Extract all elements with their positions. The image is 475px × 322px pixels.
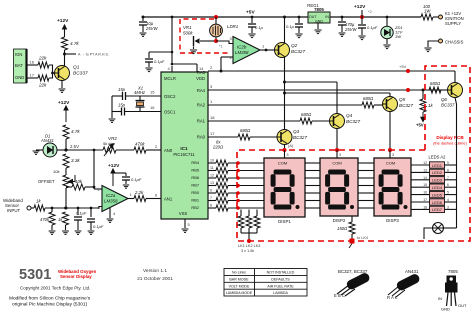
wire DISP3 to LED	[411, 179, 430, 181]
wire R2 to Q1 base	[49, 73, 53, 78]
display DISP1	[264, 158, 305, 217]
svg-text:680Ω: 680Ω	[363, 96, 374, 101]
svg-text:11: 11	[210, 166, 214, 170]
svg-text:17: 17	[210, 131, 215, 136]
wire link 3	[256, 210, 258, 217]
wire stub	[349, 244, 352, 249]
svg-text:500k: 500k	[183, 31, 193, 36]
svg-text:3 x 1.5k: 3 x 1.5k	[241, 249, 254, 253]
resistor R17 1k	[420, 99, 426, 112]
svg-text:14: 14	[199, 66, 204, 71]
ground Q1 emitter	[59, 89, 66, 92]
svg-text:5: 5	[447, 191, 449, 195]
svg-text:BAT: BAT	[15, 63, 23, 68]
svg-text:4: 4	[447, 198, 449, 202]
svg-text:to LK4: to LK4	[357, 236, 368, 240]
svg-text:BC327: BC327	[346, 119, 360, 124]
svg-text:14: 14	[423, 176, 427, 180]
wire RA3 bus	[208, 70, 455, 72]
wire	[125, 173, 127, 176]
svg-text:22k: 22k	[38, 56, 47, 61]
wire LED to common	[445, 179, 457, 181]
display PCB dashed outline	[237, 66, 470, 241]
svg-text:LDR1: LDR1	[227, 24, 239, 29]
wire DISP2-DISP3 bus	[358, 207, 374, 209]
svg-text:0.1µF: 0.1µF	[131, 177, 142, 182]
svg-text:7805: 7805	[448, 269, 458, 274]
wire	[148, 52, 150, 58]
package BC327/BC337	[334, 269, 371, 298]
wire	[341, 25, 343, 32]
wire IC1 RB7	[208, 185, 216, 187]
svg-text:IC1: IC1	[180, 146, 188, 151]
svg-text:12: 12	[423, 161, 427, 165]
node n4	[90, 207, 93, 210]
svg-text:+12V: +12V	[58, 100, 70, 106]
svg-text:+12V: +12V	[108, 163, 120, 169]
node Q1 base	[51, 72, 54, 75]
svg-text:BC337: BC337	[441, 103, 455, 108]
resistor R10 2.2k	[134, 196, 146, 202]
node A	[283, 148, 287, 152]
wire	[251, 27, 253, 33]
ground C4	[145, 68, 152, 72]
node	[236, 161, 240, 165]
wire DISP1-DISP2 bus	[305, 162, 320, 164]
node	[236, 169, 240, 173]
wire	[386, 39, 388, 44]
node	[171, 16, 174, 19]
svg-text:16: 16	[30, 60, 35, 65]
svg-text:0.1µF: 0.1µF	[154, 59, 165, 64]
wire link 2	[248, 210, 250, 217]
LED LED1	[430, 162, 445, 168]
svg-text:17: 17	[423, 198, 427, 202]
wire to DISP1 pin	[228, 185, 264, 187]
wire	[139, 96, 141, 101]
svg-text:680Ω: 680Ω	[240, 128, 251, 133]
svg-text:BC327: BC327	[293, 135, 307, 140]
LED LED3	[430, 177, 445, 183]
svg-text:3.3k: 3.3k	[71, 158, 80, 163]
wire to DISP1 pin	[228, 207, 264, 209]
wire link common	[241, 232, 257, 234]
wire RA0 bus	[208, 136, 238, 138]
svg-text:Q2: Q2	[291, 43, 298, 48]
wire pin14 link	[172, 63, 197, 65]
ground C11	[358, 36, 365, 40]
svg-text:8: 8	[447, 168, 449, 172]
svg-text:2.5V: 2.5V	[70, 144, 79, 149]
wire REF1 to ground	[36, 149, 43, 151]
wire MCLR to +5V rail	[171, 17, 173, 64]
wire DISP2-DISP3 bus	[358, 185, 374, 187]
+12V rail arrow 2	[64, 106, 68, 122]
wire IC1 RB2	[208, 207, 216, 209]
node	[406, 88, 410, 92]
transistor Q2 BC327	[275, 43, 290, 58]
resistor R5 3.3k	[63, 154, 69, 168]
resistor RB array 4 220R	[216, 183, 228, 189]
svg-text:Q6: Q6	[441, 97, 447, 102]
wire	[248, 228, 250, 233]
svg-text:BC327, BC337: BC327, BC337	[338, 269, 368, 274]
svg-text:GND: GND	[441, 307, 450, 312]
svg-text:3: 3	[447, 205, 449, 209]
node LK4	[350, 239, 355, 244]
resistor R7 1k	[34, 205, 45, 211]
wire	[90, 208, 92, 217]
node LDR bottom	[214, 39, 218, 43]
svg-text:GND: GND	[15, 75, 24, 80]
trimpot VR3 body	[63, 175, 69, 188]
wire	[66, 186, 72, 188]
wire DISP2 pin	[351, 216, 353, 222]
wire	[193, 47, 195, 49]
node	[265, 49, 268, 52]
resistor R12 100R 1W	[421, 14, 433, 20]
wire R1 to Q1 base	[49, 65, 55, 73]
resistor R16 680R	[429, 87, 441, 93]
svg-text:RB2: RB2	[191, 205, 199, 210]
svg-text:15p: 15p	[118, 87, 126, 92]
wire Q2 emitter to rail	[284, 17, 286, 44]
svg-text:A → to PT A R.H.S.: A → to PT A R.H.S.	[78, 53, 109, 57]
svg-text:COM: COM	[332, 160, 341, 165]
svg-text:7805: 7805	[314, 7, 324, 12]
node n3	[77, 207, 80, 210]
ground chassis	[424, 48, 431, 52]
wire LED to common	[445, 164, 457, 166]
wire osc gnd leg	[111, 96, 113, 118]
svg-text:0.1µ: 0.1µ	[286, 24, 295, 29]
regulator REG1 7805	[308, 12, 330, 23]
transistor Q1 BC337	[55, 66, 70, 81]
svg-text:R A K: R A K	[387, 295, 398, 300]
wire	[93, 187, 95, 189]
svg-text:OUT: OUT	[309, 15, 317, 19]
wire RA1 bus	[208, 120, 300, 122]
crystal X1 4MHz	[136, 96, 145, 112]
wire	[215, 17, 217, 24]
capacitor C8 0.1uF	[248, 24, 256, 27]
svg-text:GND: GND	[315, 20, 323, 24]
resistor LK3	[254, 216, 260, 228]
svg-text:1k: 1k	[36, 199, 41, 204]
terminal K1	[439, 15, 443, 19]
wire	[90, 222, 92, 230]
wire	[142, 17, 144, 21]
ground IC1 VSS	[182, 229, 189, 232]
resistor RB array 7 220R	[216, 205, 228, 211]
ground C2	[88, 231, 95, 234]
wire	[361, 17, 363, 24]
ground R9	[62, 231, 69, 234]
LED LED6	[430, 199, 445, 205]
svg-text:6: 6	[210, 189, 212, 193]
svg-text:Q1: Q1	[73, 65, 80, 71]
wire DISP1 COM stub	[284, 150, 286, 158]
resistor R8 470k	[49, 212, 55, 225]
resistor R18 150R	[349, 222, 355, 234]
svg-text:Q3: Q3	[293, 129, 300, 134]
wire R6 to opamp	[85, 186, 94, 188]
capacitor C2 0.1uF	[87, 219, 95, 222]
wire CON1 pin17 to R2	[27, 77, 38, 79]
node	[251, 16, 254, 19]
resistor R14 680R	[300, 118, 312, 124]
connector CON1	[14, 49, 27, 83]
wire osc bottom	[112, 111, 121, 113]
+12V rail arrow	[63, 25, 67, 37]
LDR1	[210, 24, 223, 37]
+12V arrow opamp	[111, 169, 115, 186]
svg-text:RA1: RA1	[197, 119, 206, 124]
node	[220, 70, 223, 73]
wire LED to common	[445, 194, 457, 196]
wire RA2 bus	[208, 104, 362, 106]
svg-text:NOT INSTALLED: NOT INSTALLED	[267, 271, 295, 275]
wire LED common vertical	[456, 104, 458, 228]
svg-text:RA0: RA0	[197, 135, 206, 140]
wire VR1 to LDR	[200, 40, 216, 42]
wire	[31, 207, 34, 209]
svg-text:16: 16	[150, 105, 155, 110]
svg-text:25VW: 25VW	[145, 26, 158, 31]
svg-text:RB0: RB0	[191, 190, 199, 195]
svg-text:25VW: 25VW	[344, 27, 357, 32]
node n1	[51, 207, 54, 210]
wire	[51, 208, 53, 212]
wire	[422, 90, 424, 99]
svg-text:150Ω: 150Ω	[337, 226, 348, 231]
svg-text:3: 3	[287, 153, 289, 157]
wire to Q4 base	[312, 120, 330, 122]
wire DISP1-DISP2 bus	[305, 170, 320, 172]
node	[283, 81, 286, 84]
wire	[64, 30, 66, 37]
svg-text:VSS: VSS	[179, 211, 188, 216]
svg-text:PIC16C711: PIC16C711	[173, 152, 195, 157]
node link common	[247, 239, 251, 243]
wire DISP2-DISP3 bus	[358, 170, 374, 172]
wire Q3 collector to DISP1	[284, 145, 286, 159]
display PCB dashed outline (LDR box)	[180, 19, 231, 53]
wire DISP1-DISP2 bus	[305, 207, 320, 209]
svg-text:BC327: BC327	[399, 103, 413, 108]
terminal K2 chassis	[439, 39, 443, 43]
svg-text:1W: 1W	[424, 9, 431, 14]
svg-text:16: 16	[423, 191, 427, 195]
ground VR1	[190, 50, 197, 54]
lamp L1	[433, 223, 444, 234]
svg-text:Modified from Silicon Chip mag: Modified from Silicon Chip magazine's	[9, 296, 91, 302]
svg-text:+12V: +12V	[354, 4, 366, 10]
wire DISP3 to LED	[411, 194, 430, 196]
wire DISP1-DISP2 bus	[305, 177, 320, 179]
display DISP2	[320, 158, 358, 216]
ground C7	[140, 33, 147, 36]
package AN431	[387, 269, 421, 300]
svg-text:(A): (A)	[288, 143, 294, 148]
+5V arrow	[421, 112, 425, 122]
svg-text:LAMBDA: LAMBDA	[273, 291, 288, 295]
LED LED4	[430, 184, 445, 190]
node	[171, 51, 174, 54]
wire	[113, 172, 126, 174]
resistor RB array 2 220R	[216, 168, 228, 174]
svg-text:680Ω: 680Ω	[301, 112, 312, 117]
svg-text:220Ω: 220Ω	[212, 145, 224, 150]
svg-text:470k: 470k	[135, 142, 145, 147]
svg-text:15p: 15p	[118, 103, 126, 108]
wire DISP3 to LED	[411, 164, 430, 166]
svg-text:6: 6	[447, 183, 449, 187]
node	[341, 16, 344, 19]
wire	[341, 17, 343, 21]
svg-text:+5V: +5V	[399, 64, 407, 69]
svg-text:4MHz: 4MHz	[134, 90, 146, 95]
node	[236, 206, 240, 210]
wire IC1 RB0	[208, 192, 216, 194]
wire	[251, 17, 253, 23]
wire IC2a pin4	[109, 208, 111, 218]
wire	[389, 93, 391, 97]
svg-text:SUPPLY: SUPPLY	[445, 21, 461, 26]
capacitor C3 0.1uF	[122, 177, 130, 180]
svg-text:8: 8	[210, 204, 212, 208]
resistor R1 22k	[38, 62, 49, 68]
wire	[429, 89, 441, 91]
svg-text:LED5: LED5	[432, 192, 443, 197]
wire DISP3 to LED	[411, 208, 430, 210]
wire chassis to ground	[428, 41, 439, 47]
svg-text:13: 13	[210, 181, 214, 185]
svg-text:680Ω: 680Ω	[430, 81, 441, 86]
svg-text:DISP2: DISP2	[333, 218, 346, 223]
trimpot VR2 body	[103, 147, 116, 153]
svg-text:IN: IN	[438, 296, 442, 301]
wire	[298, 27, 300, 33]
resistor RB array 6 220R	[216, 198, 228, 204]
svg-text:Version 1.1: Version 1.1	[143, 268, 167, 274]
svg-text:CHASSIS: CHASSIS	[445, 40, 464, 45]
svg-text:0.1µF: 0.1µF	[76, 211, 87, 216]
wire to IC2a pin2	[94, 188, 102, 190]
resistor R13 680R	[238, 134, 250, 140]
svg-text:1k: 1k	[428, 103, 433, 108]
svg-text:3: 3	[339, 153, 341, 157]
wire to IC2a pin3	[99, 207, 102, 209]
wire DISP2-DISP3 bus	[358, 192, 374, 194]
svg-text:MCLR: MCLR	[164, 76, 176, 81]
svg-text:Q5: Q5	[399, 97, 406, 102]
svg-text:470k: 470k	[40, 217, 50, 222]
svg-text:4.7k: 4.7k	[70, 41, 79, 46]
wire DISP1-DISP2 bus	[305, 192, 320, 194]
wire IC2a output	[128, 198, 134, 200]
ground ZD1	[383, 45, 390, 49]
wire emitter rail D3	[285, 92, 391, 94]
zener ZD1 12V	[381, 26, 393, 38]
svg-text:LED2: LED2	[432, 170, 443, 175]
wire	[351, 234, 353, 241]
wire Q6 emitter	[455, 98, 457, 105]
wire RA4 bus	[208, 89, 429, 91]
wire Q1 emitter to ground	[61, 81, 63, 89]
node	[388, 148, 392, 152]
svg-text:LED7: LED7	[432, 207, 443, 212]
svg-text:5k trim: 5k trim	[103, 141, 116, 146]
ground C10	[339, 33, 346, 36]
wire DISP1-DISP2 bus	[305, 200, 320, 202]
wire to Q3 base	[250, 136, 277, 138]
svg-text:4.7k: 4.7k	[71, 129, 80, 134]
svg-text:17: 17	[30, 73, 35, 78]
node	[406, 69, 410, 73]
package 7805	[438, 269, 467, 312]
wire	[125, 180, 127, 184]
svg-text:Display PCB: Display PCB	[436, 135, 464, 140]
wire IC1 RB5	[208, 170, 216, 172]
wire link 1	[240, 210, 242, 217]
wire to DISP1 pin	[228, 200, 264, 202]
wire	[215, 37, 217, 41]
resistor R2 22k	[38, 75, 49, 81]
transistor Q6 BC337	[448, 83, 463, 98]
svg-text:VR1: VR1	[183, 25, 192, 30]
wire +5V rail	[143, 16, 308, 18]
capacitor C11 0.1uF	[358, 25, 366, 28]
capacitor C10 470uF	[338, 22, 346, 25]
wire IC1 pin14 stub	[196, 64, 198, 72]
wire Q1 collector	[64, 56, 66, 66]
svg-text:Q4: Q4	[346, 113, 353, 118]
svg-text:VDD: VDD	[196, 76, 205, 81]
svg-text:13: 13	[423, 168, 427, 172]
resistor R15 680R	[362, 102, 374, 108]
ground C9	[295, 34, 302, 38]
svg-text:E B C: E B C	[334, 293, 345, 298]
wire Q4 collector to DISP2	[336, 129, 338, 159]
svg-text:15: 15	[150, 90, 155, 95]
svg-text:RB1: RB1	[191, 198, 199, 203]
svg-text:+5V: +5V	[246, 10, 255, 16]
wire DISP3 COM stub	[389, 150, 391, 158]
wire	[65, 139, 67, 150]
wire	[361, 28, 363, 35]
op-amp IC2a LM358	[102, 186, 128, 212]
svg-text:LAMBDA MODE: LAMBDA MODE	[226, 291, 253, 295]
svg-text:22k: 22k	[38, 83, 47, 88]
node	[386, 16, 389, 19]
svg-text:21 October 2001: 21 October 2001	[137, 276, 173, 282]
svg-text:AN431: AN431	[405, 269, 419, 274]
node	[335, 148, 339, 152]
wire DISP3 to LED	[411, 171, 430, 173]
svg-text:AN0: AN0	[164, 148, 173, 153]
node	[142, 16, 145, 19]
svg-text:No Links: No Links	[232, 271, 246, 275]
LED LED5	[430, 191, 445, 197]
node VR2 tap	[93, 149, 96, 152]
wire	[148, 62, 150, 67]
wire node A to note	[65, 53, 77, 55]
wire LDR to IC2b pin3	[216, 41, 233, 44]
wire IC1 pin4 stub	[171, 66, 173, 72]
svg-text:LED6: LED6	[432, 200, 443, 205]
svg-text:LM358: LM358	[104, 199, 118, 204]
